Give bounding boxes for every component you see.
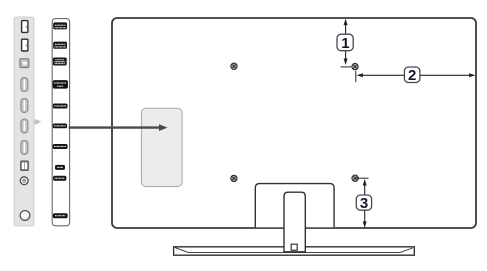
label EX-LINK (53, 176, 66, 181)
hdmi port 3 (21, 119, 28, 133)
lan port (21, 161, 29, 170)
hdmi port 4 (21, 141, 28, 155)
label HDMI IN 3 (53, 104, 68, 109)
dimension 1 label box (337, 34, 353, 52)
label USB (5V 0.5A) (53, 22, 67, 29)
neck latch square (291, 244, 297, 250)
hdmi port 2 (21, 99, 28, 113)
monitor outline (112, 18, 476, 228)
hdmi port 1 (21, 78, 28, 92)
label HDMI IN 1 (53, 144, 68, 149)
stand base (174, 247, 415, 255)
pointer triangle (35, 119, 42, 125)
usb port 2 (22, 39, 28, 51)
connection arrow (69, 124, 168, 131)
svg-text:2: 2 (408, 67, 416, 84)
usb port 1 (22, 21, 28, 33)
dimension 3 label box (356, 195, 371, 212)
screw bottom-right (352, 175, 358, 181)
dimension 2 label box (404, 67, 420, 84)
svg-text:3: 3 (360, 195, 368, 212)
dimension 3 tick (357, 177, 369, 179)
screw bottom-left (231, 175, 237, 181)
ports panel strip (14, 17, 34, 226)
label DIGITAL AUDIO OUT (OPTICAL) (53, 58, 67, 66)
antenna connector (20, 211, 30, 221)
stand cover plate (255, 184, 334, 228)
label LAN (55, 165, 65, 170)
optical port (20, 59, 29, 68)
dimension 1 line (344, 19, 348, 65)
label USB (HDD 5V 1A) (53, 42, 67, 49)
label ANT IN (53, 213, 68, 218)
dimension 2 line (356, 73, 475, 77)
dimension 1 tick (341, 66, 352, 68)
screw top-right (352, 63, 358, 69)
labels panel strip (52, 19, 69, 226)
dimension 3 line (363, 179, 367, 228)
label HDMI IN 4 (ARC) (53, 80, 68, 89)
ex-link jack (20, 177, 28, 185)
stand neck (284, 192, 305, 252)
svg-text:1: 1 (341, 35, 349, 52)
dimension 2 tick (355, 71, 357, 82)
label HDMI IN 2 (53, 124, 67, 129)
jack panel on monitor (141, 108, 182, 186)
screw top-left (231, 63, 237, 69)
